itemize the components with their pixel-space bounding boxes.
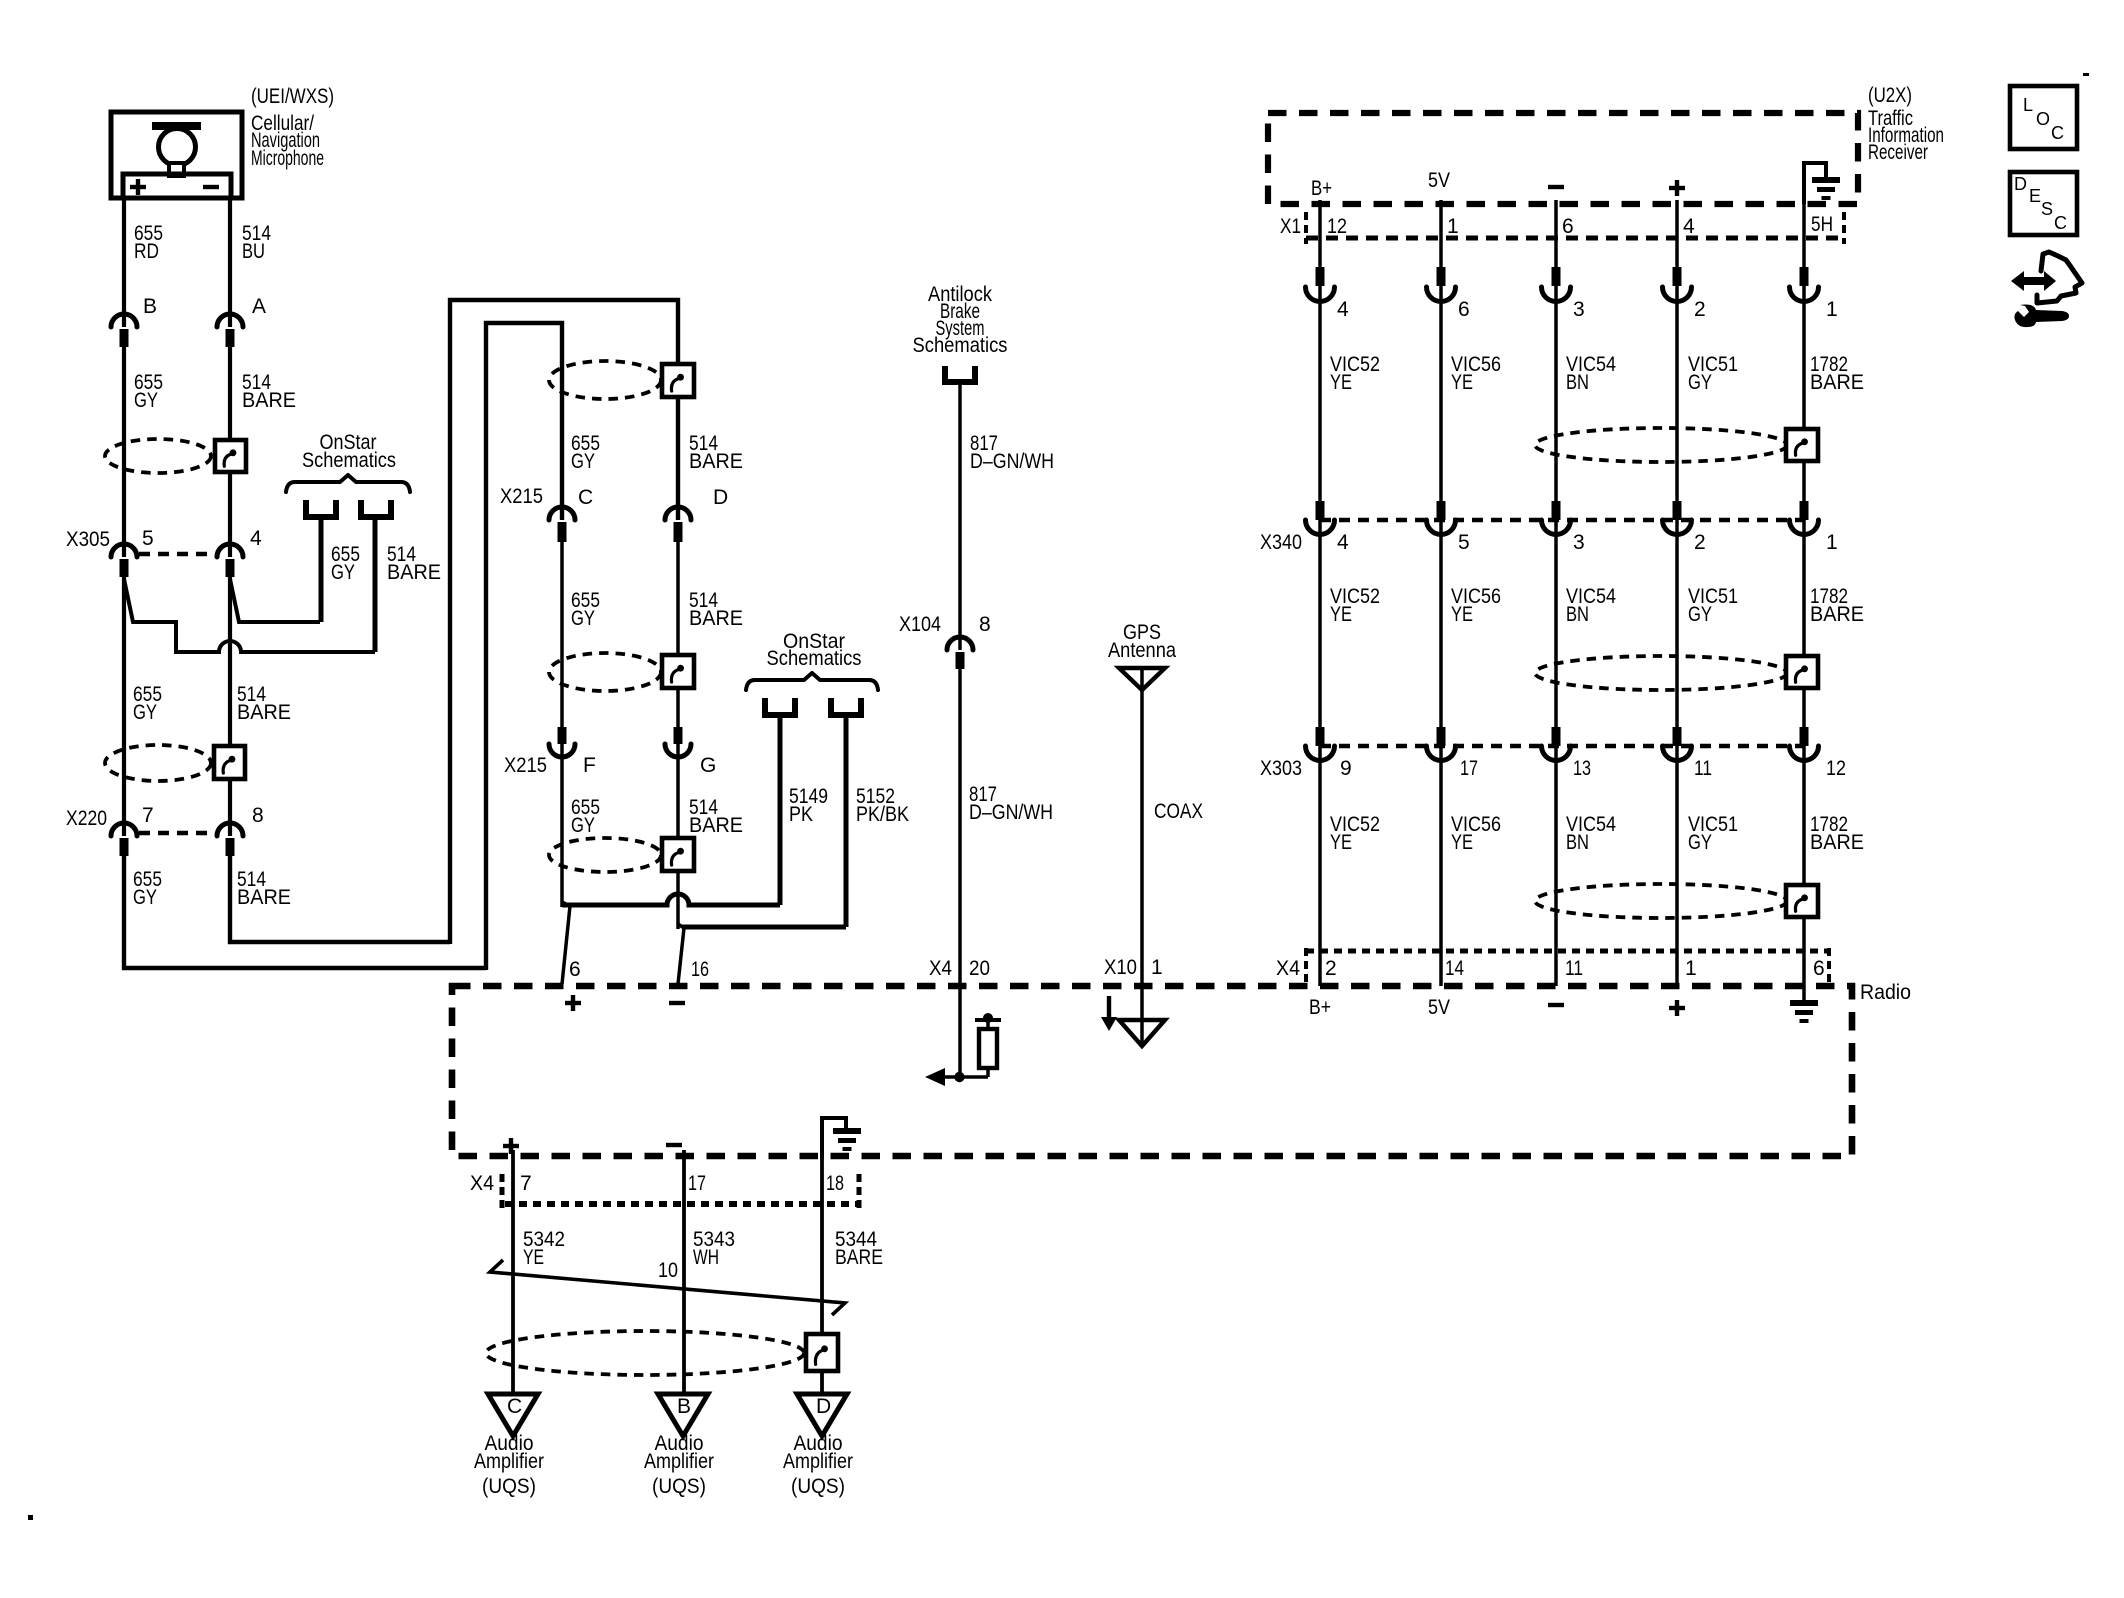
svg-text:10: 10 bbox=[658, 1259, 678, 1282]
svg-text:X215: X215 bbox=[500, 485, 543, 508]
svg-text:B: B bbox=[143, 295, 157, 318]
connector X215 terminal F bbox=[558, 727, 567, 744]
svg-text:X4: X4 bbox=[470, 1172, 494, 1195]
wire OnStar 655 GY stub bbox=[319, 519, 324, 622]
svg-text:A: A bbox=[252, 295, 266, 318]
svg-text:GY: GY bbox=[1688, 603, 1712, 626]
svg-text:Schematics: Schematics bbox=[767, 647, 862, 670]
amplifier terminal C bbox=[488, 1394, 538, 1436]
microphone terminal block bbox=[123, 174, 231, 198]
svg-text:E: E bbox=[2029, 186, 2041, 206]
svg-text:6: 6 bbox=[1562, 215, 1574, 238]
svg-text:BARE: BARE bbox=[1810, 603, 1864, 626]
wire 5342 YE radio pin7 to amplifier C bbox=[511, 1150, 515, 1394]
svg-text:Amplifier: Amplifier bbox=[474, 1450, 544, 1473]
svg-text:BARE: BARE bbox=[237, 886, 291, 909]
label + (radio) bbox=[1669, 1006, 1685, 1010]
svg-text:BN: BN bbox=[1566, 603, 1589, 626]
svg-text:BN: BN bbox=[1566, 831, 1589, 854]
connector terminal B bbox=[111, 314, 137, 327]
component box Radio (dashed) bbox=[452, 986, 1852, 1156]
svg-text:2: 2 bbox=[1694, 531, 1706, 554]
wire slant to radio pin 6 bbox=[562, 902, 570, 984]
svg-text:B: B bbox=[677, 1395, 691, 1418]
svg-text:Radio: Radio bbox=[1860, 981, 1911, 1004]
connector X220 terminal 7 bbox=[111, 823, 137, 836]
microphone symbol head bbox=[159, 129, 196, 166]
svg-text:4: 4 bbox=[1683, 215, 1695, 238]
svg-text:(UQS): (UQS) bbox=[652, 1475, 706, 1498]
label - (receiver) bbox=[1548, 185, 1564, 189]
svg-text:GY: GY bbox=[571, 450, 595, 473]
wire 817 D-GN/WH upper bbox=[958, 384, 962, 650]
microphone - terminal label bbox=[203, 185, 219, 189]
svg-text:X303: X303 bbox=[1260, 757, 1302, 780]
svg-text:5: 5 bbox=[142, 527, 154, 550]
svg-text:6: 6 bbox=[569, 958, 581, 981]
svg-text:Schematics: Schematics bbox=[913, 334, 1008, 357]
svg-text:L: L bbox=[2023, 95, 2033, 115]
svg-text:17: 17 bbox=[1460, 757, 1478, 780]
connector X220 mating line bbox=[139, 831, 215, 836]
connector X305 terminal 5 bbox=[111, 544, 137, 557]
svg-text:COAX: COAX bbox=[1154, 800, 1203, 823]
connector X303 terminals bbox=[1316, 727, 1325, 746]
splice crossing box bbox=[662, 655, 694, 688]
svg-text:7: 7 bbox=[142, 804, 154, 827]
harness ellipse bbox=[549, 838, 661, 872]
splice crossing box bbox=[662, 364, 694, 397]
svg-text:X305: X305 bbox=[66, 528, 110, 551]
svg-text:D–GN/WH: D–GN/WH bbox=[970, 450, 1054, 473]
svg-text:GY: GY bbox=[134, 389, 158, 412]
svg-text:8: 8 bbox=[979, 613, 991, 636]
wire 514 BARE X305-4 down bbox=[228, 577, 232, 836]
svg-text:B+: B+ bbox=[1309, 996, 1331, 1019]
svg-text:PK: PK bbox=[789, 803, 813, 826]
ABS terminal bbox=[942, 366, 948, 385]
svg-text:YE: YE bbox=[1330, 603, 1352, 626]
splice crossing box bbox=[214, 746, 245, 779]
connector X215 terminal D bbox=[665, 507, 691, 520]
wire 514 BARE X215-D down to radio pin 16 bbox=[676, 542, 680, 929]
svg-text:1: 1 bbox=[1447, 215, 1459, 238]
wire junction 655 to 5149 with hop over 514 bbox=[562, 894, 780, 905]
wire 655 GY mic-B to X305-5 bbox=[122, 347, 126, 557]
microphone + terminal label bbox=[130, 185, 146, 189]
radio - output label bbox=[666, 1143, 682, 1147]
amplifier terminal B bbox=[658, 1394, 708, 1436]
svg-text:PK/BK: PK/BK bbox=[856, 803, 909, 826]
svg-text:D: D bbox=[2014, 174, 2027, 194]
radio - input label bbox=[669, 1001, 685, 1005]
svg-text:11: 11 bbox=[1694, 757, 1712, 780]
internal antenna receive symbol bbox=[1119, 1020, 1165, 1046]
splice crossing box bbox=[662, 838, 694, 871]
svg-text:BARE: BARE bbox=[835, 1246, 883, 1269]
connector X215 terminal G bbox=[674, 727, 683, 744]
harness ellipse (right 2) bbox=[1535, 656, 1787, 690]
radio ground symbol (pin 6) bbox=[1802, 986, 1806, 1000]
splice crossing box bbox=[1786, 656, 1818, 688]
svg-text:D: D bbox=[816, 1395, 831, 1418]
wire 5149 PK down bbox=[778, 717, 783, 905]
connector X305 terminal 4 bbox=[217, 544, 243, 557]
splice crossing box bbox=[1786, 429, 1818, 461]
svg-text:BARE: BARE bbox=[237, 701, 291, 724]
svg-text:4: 4 bbox=[1337, 298, 1349, 321]
svg-text:Microphone: Microphone bbox=[251, 147, 324, 170]
wire + trunk bbox=[1675, 200, 1679, 986]
svg-text:1: 1 bbox=[1685, 957, 1697, 980]
wire 514 BARE X220-8 routed right and up to X215-D bbox=[230, 300, 678, 944]
brace OnStar (middle) bbox=[746, 673, 878, 690]
harness ellipse (right 3) bbox=[1535, 884, 1787, 918]
microphone symbol stem bbox=[169, 163, 184, 176]
wire COAX from GPS antenna to radio X10-1 bbox=[1140, 668, 1144, 986]
wire - trunk bbox=[1554, 200, 1558, 986]
svg-text:X4: X4 bbox=[1276, 957, 1300, 980]
wire 5344 BARE radio pin18 to amplifier D bbox=[820, 1118, 824, 1394]
connector X340 terminals bbox=[1316, 501, 1325, 520]
svg-text:BU: BU bbox=[242, 240, 265, 263]
internal arrowhead bbox=[925, 1068, 945, 1086]
connector X4 mating line (audio) bbox=[505, 1201, 861, 1207]
svg-text:5: 5 bbox=[1458, 531, 1470, 554]
connector X1 mating line bbox=[1306, 236, 1844, 241]
svg-text:YE: YE bbox=[1451, 831, 1473, 854]
connector X1 end ticks bbox=[1304, 212, 1308, 244]
svg-text:9: 9 bbox=[1340, 757, 1352, 780]
svg-text:BN: BN bbox=[1566, 371, 1589, 394]
svg-text:X4: X4 bbox=[929, 957, 952, 980]
icon DESC box bbox=[2010, 172, 2077, 235]
component box Cellular/Navigation Microphone bbox=[111, 112, 242, 198]
wire 514 BU from microphone - bbox=[228, 198, 232, 327]
wire 655 RD from microphone + bbox=[122, 198, 126, 327]
load top bar bbox=[975, 1018, 1001, 1022]
svg-text:5V: 5V bbox=[1428, 996, 1450, 1019]
svg-text:GY: GY bbox=[133, 701, 157, 724]
svg-text:20: 20 bbox=[969, 957, 990, 980]
svg-text:X215: X215 bbox=[504, 754, 547, 777]
splice crossing box bbox=[806, 1334, 838, 1371]
svg-text:O: O bbox=[2036, 109, 2050, 129]
harness ellipse (right 1) bbox=[1535, 428, 1787, 462]
svg-text:C: C bbox=[507, 1395, 522, 1418]
svg-text:18: 18 bbox=[826, 1172, 844, 1195]
svg-text:BARE: BARE bbox=[1810, 371, 1864, 394]
svg-text:Antenna: Antenna bbox=[1108, 639, 1176, 662]
svg-text:5H: 5H bbox=[1811, 213, 1833, 236]
icon LOC box bbox=[2010, 86, 2077, 149]
internal down arrow bbox=[1107, 996, 1111, 1019]
connector X303 mating line bbox=[1320, 744, 1804, 749]
svg-text:2: 2 bbox=[1694, 298, 1706, 321]
tick mark top right bbox=[2083, 73, 2089, 76]
svg-text:BARE: BARE bbox=[1810, 831, 1864, 854]
wire branch X305-4 to OnStar 655 GY bbox=[230, 579, 320, 622]
svg-text:D: D bbox=[713, 486, 728, 509]
svg-text:C: C bbox=[2051, 123, 2064, 143]
splice crossing box bbox=[1786, 885, 1818, 917]
icon arrow outline bbox=[2037, 252, 2082, 303]
svg-text:GY: GY bbox=[331, 561, 355, 584]
receiver ground symbol bbox=[1812, 177, 1840, 183]
svg-text:4: 4 bbox=[1337, 531, 1349, 554]
svg-text:X220: X220 bbox=[66, 807, 107, 830]
component box Traffic Information Receiver (dashed) bbox=[1268, 113, 1858, 204]
svg-text:3: 3 bbox=[1573, 531, 1585, 554]
harness ellipse bbox=[549, 653, 661, 691]
label - (radio) bbox=[1548, 1003, 1564, 1007]
harness ellipse (audio) bbox=[486, 1331, 804, 1375]
svg-text:(UQS): (UQS) bbox=[791, 1475, 845, 1498]
icon wrench bbox=[2014, 305, 2069, 328]
svg-text:1: 1 bbox=[1826, 298, 1838, 321]
GPS antenna symbol bbox=[1119, 668, 1165, 690]
svg-text:YE: YE bbox=[523, 1246, 544, 1269]
wire 817 D-GN/WH lower to radio X4-20 bbox=[958, 669, 962, 986]
connector X104 terminal 8 bbox=[947, 637, 973, 650]
twisted-lead marker line bbox=[490, 1260, 845, 1315]
X1 harness terminals bbox=[1316, 267, 1325, 286]
svg-text:GY: GY bbox=[571, 814, 595, 837]
wire 817 inside radio bbox=[958, 986, 962, 1077]
wire ground trunk bbox=[1802, 200, 1806, 986]
microphone symbol top bar bbox=[152, 122, 201, 130]
svg-text:7: 7 bbox=[520, 1172, 532, 1195]
splice crossing box bbox=[215, 440, 246, 472]
svg-text:GY: GY bbox=[571, 607, 595, 630]
radio + output label bbox=[503, 1144, 519, 1148]
svg-text:RD: RD bbox=[134, 240, 159, 263]
svg-text:X340: X340 bbox=[1260, 531, 1302, 554]
connector X220 terminal 8 bbox=[217, 823, 243, 836]
connector X4 mating line (radio right) bbox=[1306, 949, 1831, 954]
svg-text:GY: GY bbox=[1688, 831, 1712, 854]
wire to internal arrow bbox=[944, 1075, 988, 1079]
svg-text:S: S bbox=[2041, 199, 2053, 219]
svg-text:14: 14 bbox=[1445, 957, 1464, 980]
svg-text:3: 3 bbox=[1573, 298, 1585, 321]
wire slant to radio pin 16 bbox=[678, 924, 684, 984]
svg-text:C: C bbox=[2054, 213, 2067, 233]
OnStar terminal 5152 PK/BK bbox=[828, 698, 834, 718]
svg-text:6: 6 bbox=[1813, 957, 1825, 980]
svg-text:BARE: BARE bbox=[689, 607, 743, 630]
svg-text:Amplifier: Amplifier bbox=[783, 1450, 853, 1473]
load top dot bbox=[983, 1013, 993, 1023]
svg-text:WH: WH bbox=[693, 1246, 719, 1269]
radio ground symbol (pin 18) bbox=[833, 1128, 861, 1134]
svg-text:C: C bbox=[578, 486, 593, 509]
wire coax inside radio bbox=[1140, 986, 1144, 1046]
wire branch X305-5 to OnStar 514 BARE with crossover hop bbox=[124, 579, 375, 652]
svg-text:Receiver: Receiver bbox=[1868, 141, 1928, 164]
svg-text:G: G bbox=[700, 754, 716, 777]
harness ellipse bbox=[549, 361, 661, 399]
svg-text:BARE: BARE bbox=[689, 814, 743, 837]
svg-text:YE: YE bbox=[1451, 603, 1473, 626]
connector X215 terminal C bbox=[549, 507, 575, 520]
OnStar terminal 514 BARE bbox=[358, 500, 364, 520]
wire 5V trunk bbox=[1439, 200, 1443, 986]
svg-text:6: 6 bbox=[1458, 298, 1470, 321]
connector X305 mating line bbox=[139, 552, 215, 557]
svg-text:BARE: BARE bbox=[689, 450, 743, 473]
wire 5343 WH radio pin17 to amplifier B bbox=[682, 1150, 686, 1394]
svg-text:Amplifier: Amplifier bbox=[644, 1450, 714, 1473]
svg-text:4: 4 bbox=[250, 527, 262, 550]
svg-text:16: 16 bbox=[691, 958, 709, 981]
amplifier terminal D bbox=[797, 1394, 847, 1436]
wire junction 514 to 5152 bbox=[682, 925, 846, 930]
OnStar terminal 5149 PK bbox=[762, 698, 768, 718]
harness ellipse bbox=[105, 745, 211, 781]
svg-text:X10: X10 bbox=[1104, 956, 1137, 979]
svg-text:11: 11 bbox=[1565, 957, 1583, 980]
svg-text:17: 17 bbox=[688, 1172, 706, 1195]
svg-text:BARE: BARE bbox=[387, 561, 441, 584]
svg-text:12: 12 bbox=[1826, 757, 1846, 780]
OnStar terminal 655 GY bbox=[303, 500, 309, 520]
wire 655 GY X220-7 routed right and up to X215-C bbox=[124, 323, 562, 970]
wire OnStar 514 BARE stub bbox=[373, 519, 378, 652]
wire 514 BARE mic-A to X305-4 bbox=[228, 347, 232, 557]
svg-text:1: 1 bbox=[1151, 956, 1163, 979]
wire B+ trunk bbox=[1318, 200, 1322, 986]
svg-text:BARE: BARE bbox=[242, 389, 296, 412]
svg-text:8: 8 bbox=[252, 804, 264, 827]
harness ellipse bbox=[105, 439, 211, 473]
wire 655 GY X305-5 down bbox=[122, 577, 126, 836]
svg-text:X104: X104 bbox=[899, 613, 941, 636]
svg-text:B+: B+ bbox=[1311, 177, 1332, 200]
svg-text:GY: GY bbox=[1688, 371, 1712, 394]
svg-text:1: 1 bbox=[1826, 531, 1838, 554]
dot bottom left bbox=[28, 1515, 33, 1520]
svg-text:F: F bbox=[583, 754, 596, 777]
icon double arrow bbox=[2011, 271, 2056, 291]
radio internal ground wire (pin 18) bbox=[822, 1118, 846, 1158]
svg-text:YE: YE bbox=[1330, 831, 1352, 854]
svg-text:5V: 5V bbox=[1428, 169, 1450, 192]
connector X4 end ticks (radio right) bbox=[1304, 948, 1308, 984]
wire 5152 PK/BK down bbox=[844, 717, 849, 927]
svg-text:YE: YE bbox=[1451, 371, 1473, 394]
connector X340 mating line bbox=[1320, 518, 1804, 523]
svg-text:GY: GY bbox=[133, 886, 157, 909]
connector terminal A bbox=[217, 314, 243, 327]
svg-text:(UEI/WXS): (UEI/WXS) bbox=[251, 85, 334, 108]
internal load resistor bbox=[986, 1068, 990, 1077]
svg-text:YE: YE bbox=[1330, 371, 1352, 394]
svg-text:13: 13 bbox=[1573, 757, 1591, 780]
receiver internal ground wire bbox=[1804, 163, 1826, 204]
connector X4 end ticks (audio) bbox=[500, 1174, 505, 1209]
svg-text:(UQS): (UQS) bbox=[482, 1475, 536, 1498]
brace OnStar (left) bbox=[286, 475, 410, 492]
svg-text:2: 2 bbox=[1325, 957, 1337, 980]
svg-text:Schematics: Schematics bbox=[302, 449, 396, 472]
wire 655 GY X215-C down to radio pin 6 bbox=[560, 542, 564, 907]
svg-text:X1: X1 bbox=[1280, 215, 1301, 238]
radio + input label bbox=[565, 1001, 581, 1005]
svg-text:12: 12 bbox=[1327, 215, 1347, 238]
junction dot bbox=[954, 1072, 964, 1082]
label + (receiver) bbox=[1669, 186, 1685, 190]
svg-text:(U2X): (U2X) bbox=[1868, 84, 1912, 107]
svg-text:D–GN/WH: D–GN/WH bbox=[969, 801, 1053, 824]
